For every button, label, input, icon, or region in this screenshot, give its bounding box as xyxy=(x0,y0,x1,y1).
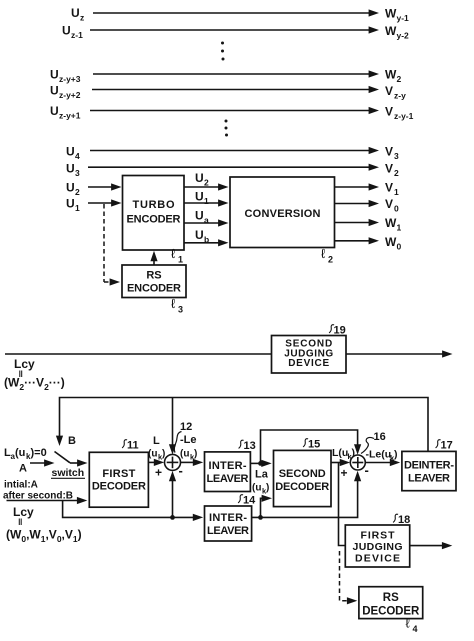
svg-text:19: 19 xyxy=(334,325,346,337)
label switch xyxy=(51,467,85,479)
svg-text:16: 16 xyxy=(374,431,386,443)
adder 16 xyxy=(350,455,365,470)
svg-text:RS: RS xyxy=(383,592,399,604)
label W1 xyxy=(385,216,402,233)
label 16 with leader xyxy=(361,431,386,454)
label W2 xyxy=(385,68,402,85)
svg-text:2: 2 xyxy=(204,178,209,188)
svg-text:+: + xyxy=(341,466,348,480)
svg-text:1: 1 xyxy=(178,255,183,265)
dashed wire U1 tap to RS encoder xyxy=(104,204,113,282)
interleaver block 13 xyxy=(205,452,251,492)
wire Uz to Wy-1 xyxy=(93,12,371,14)
label Uz-y+2 xyxy=(50,84,81,101)
wire RS encoder to turbo encoder xyxy=(150,251,157,265)
first judging device block 18 xyxy=(345,525,409,567)
svg-text:Lcy: Lcy xyxy=(14,357,35,371)
label l3 xyxy=(171,296,183,315)
wire turbo out Ub xyxy=(184,242,222,244)
svg-text:U: U xyxy=(66,145,75,159)
label Vz-y xyxy=(385,84,406,101)
svg-text:(u: (u xyxy=(15,447,25,459)
svg-text:-: - xyxy=(179,463,183,478)
wire U1 into turbo encoder xyxy=(88,202,114,204)
wire conversion out W1 xyxy=(335,222,372,224)
svg-text:ENCODER: ENCODER xyxy=(127,214,181,226)
feedback wire deinterleaver to B and adder 12 xyxy=(60,398,429,452)
svg-text:W: W xyxy=(385,68,397,82)
ellipsis dots upper xyxy=(221,42,228,137)
svg-text:2: 2 xyxy=(75,187,80,197)
wire first decoder to adder 12 xyxy=(148,461,156,463)
label U1 mid xyxy=(195,190,209,207)
svg-text:U: U xyxy=(66,162,75,176)
label 18 xyxy=(393,514,410,526)
svg-text:DEINTER-: DEINTER- xyxy=(404,460,454,472)
first decoder block 11 xyxy=(89,452,148,507)
label U4 xyxy=(66,145,80,162)
svg-text:18: 18 xyxy=(398,514,410,526)
svg-text:1: 1 xyxy=(75,203,80,213)
second judging device block 19 xyxy=(272,336,347,374)
svg-text:U: U xyxy=(195,209,204,223)
svg-text:-: - xyxy=(365,463,369,478)
svg-text:0: 0 xyxy=(397,242,402,252)
wire first judging device out xyxy=(410,545,445,547)
label -Le(uk) right of adder line xyxy=(180,434,197,462)
svg-text:V: V xyxy=(385,105,393,119)
label V1 xyxy=(385,181,399,198)
turbo encoder block 1 xyxy=(123,176,185,251)
second decoder block 15 xyxy=(274,450,332,506)
svg-text:15: 15 xyxy=(308,439,320,451)
svg-text:L(u: L(u xyxy=(332,447,348,459)
wire switch to first decoder xyxy=(70,462,80,464)
svg-text:13: 13 xyxy=(244,440,256,452)
svg-text:(u: (u xyxy=(252,483,261,494)
wire L(uk) tap down to first judging device xyxy=(339,463,346,546)
svg-text:V: V xyxy=(385,162,393,176)
svg-text:INTER-: INTER- xyxy=(209,512,247,524)
label L(uk) before adder 16 xyxy=(332,447,355,461)
svg-text:(u: (u xyxy=(148,449,157,460)
svg-text:11: 11 xyxy=(127,440,139,452)
svg-text:17: 17 xyxy=(441,440,453,452)
svg-text:z-y+1: z-y+1 xyxy=(59,111,81,121)
svg-text:(u: (u xyxy=(180,449,189,460)
svg-text:B: B xyxy=(68,435,76,447)
label V2 xyxy=(385,162,399,179)
svg-text:): ) xyxy=(266,483,269,494)
wire Uz-y+1 to Vz-y-1 xyxy=(90,110,371,112)
svg-text:FIRST: FIRST xyxy=(102,468,135,480)
svg-text:LEAVER: LEAVER xyxy=(207,525,249,537)
svg-text:intial:A: intial:A xyxy=(4,480,38,491)
wire Lcy branch down and right to interleaver 14 xyxy=(63,501,196,518)
label Ua mid xyxy=(195,209,209,226)
adder 12 xyxy=(165,454,181,470)
svg-text:DECODER: DECODER xyxy=(92,481,146,493)
svg-text:1: 1 xyxy=(204,196,209,206)
label Ub mid xyxy=(195,228,209,245)
label -Le(uk) after adder 16 xyxy=(366,449,398,463)
svg-text:y-1: y-1 xyxy=(397,13,410,23)
conversion block 2 xyxy=(230,177,335,248)
label Wy-1 xyxy=(385,7,409,24)
svg-text:W: W xyxy=(385,216,397,230)
svg-text:12: 12 xyxy=(180,421,192,433)
wire second decoder to adder 16 xyxy=(331,462,343,464)
deinterleaver block 17 xyxy=(402,451,456,490)
label Uz xyxy=(71,6,84,23)
svg-text:Lcy: Lcy xyxy=(13,505,34,519)
svg-text:-Le: -Le xyxy=(180,434,197,446)
svg-text:JUDGING: JUDGING xyxy=(353,541,403,553)
svg-text:z-y: z-y xyxy=(394,91,406,101)
svg-text:ENCODER: ENCODER xyxy=(127,283,181,295)
wire junction up over to adder 16 top xyxy=(261,430,358,463)
svg-text:V: V xyxy=(385,197,393,211)
label Wy-2 xyxy=(385,24,409,41)
svg-text:TURBO: TURBO xyxy=(133,199,175,211)
svg-text:V: V xyxy=(385,84,393,98)
label 15 xyxy=(303,439,320,451)
label 19 xyxy=(329,325,346,337)
wire interleaver 14 out to adder 16 bottom xyxy=(252,479,358,518)
svg-text:SECOND: SECOND xyxy=(279,468,326,480)
dashed wire down to RS decoder xyxy=(340,551,349,601)
label Vz-y-1 xyxy=(385,105,414,122)
svg-text:V: V xyxy=(385,145,393,159)
svg-text:0: 0 xyxy=(394,204,399,214)
wire interleaver13 to second decoder with junction xyxy=(250,462,264,464)
wire adder16 to deinterleaver xyxy=(365,462,392,464)
wire Uz-1 to Wy-2 xyxy=(90,29,371,31)
svg-text:2: 2 xyxy=(394,168,399,178)
wire U4 to V3 xyxy=(90,150,371,152)
RS decoder block 4 xyxy=(359,587,423,619)
wire Lcy(W2..V2..) to second judging device and out xyxy=(5,353,445,355)
label V0 xyxy=(385,197,399,214)
svg-text:): ) xyxy=(162,449,165,460)
svg-text:1: 1 xyxy=(394,187,399,197)
label U2 xyxy=(66,181,80,198)
wire conversion out W0 xyxy=(335,240,372,242)
wire Lcy to first decoder xyxy=(7,500,80,502)
svg-text:z-y+3: z-y+3 xyxy=(59,74,81,84)
label 14 xyxy=(238,495,256,507)
svg-text:A: A xyxy=(19,463,27,475)
svg-text:4: 4 xyxy=(413,624,418,634)
node junction after interleaver 14 xyxy=(258,515,263,520)
svg-text:14: 14 xyxy=(243,495,256,507)
label L(uk) left of adder xyxy=(148,435,165,462)
svg-text:U: U xyxy=(50,104,59,118)
svg-text:La: La xyxy=(255,469,269,481)
svg-text:W: W xyxy=(385,7,397,21)
svg-text:FIRST: FIRST xyxy=(361,530,396,542)
svg-text:‖: ‖ xyxy=(18,517,22,527)
svg-text:): ) xyxy=(194,449,197,460)
svg-text:U: U xyxy=(195,228,204,242)
svg-text:DECODER: DECODER xyxy=(275,481,329,493)
wire Uz-y+2 to Vz-y xyxy=(92,89,371,91)
label 13 xyxy=(239,440,256,452)
label l1 xyxy=(171,246,183,265)
switch wire A contact xyxy=(30,462,47,464)
svg-text:U: U xyxy=(62,24,71,38)
wire junction up into second decoder lower input xyxy=(261,498,265,517)
svg-text:switch: switch xyxy=(52,467,85,479)
wire turbo out Ua xyxy=(184,222,222,224)
svg-text:U: U xyxy=(71,6,80,20)
svg-text:a: a xyxy=(204,215,209,225)
wire U3 to V2 xyxy=(88,166,371,168)
svg-text:3: 3 xyxy=(178,305,183,315)
svg-text:)=0: )=0 xyxy=(31,447,47,459)
interleaver block 14 xyxy=(205,506,252,541)
svg-text:z-y-1: z-y-1 xyxy=(394,111,414,121)
label Uz-1 xyxy=(62,24,83,41)
arrowheads right column xyxy=(111,9,379,246)
switch blade xyxy=(55,452,71,463)
wire Uz-y+3 to W2 xyxy=(93,73,371,75)
RS encoder block 3 xyxy=(122,265,186,298)
svg-text:CONVERSION: CONVERSION xyxy=(245,208,321,220)
label l2 xyxy=(321,246,333,265)
node junction before second decoder xyxy=(258,461,263,466)
svg-text:U: U xyxy=(66,181,75,195)
svg-text:L: L xyxy=(153,435,160,447)
wire adder12 to interleaver 13 xyxy=(181,461,196,463)
svg-text:z: z xyxy=(80,13,84,23)
label 17 xyxy=(436,440,453,452)
label Lcy top xyxy=(14,357,35,379)
label 12 with leader xyxy=(174,421,192,453)
label V3 xyxy=(385,145,399,162)
svg-text:U: U xyxy=(195,171,204,185)
svg-text:INTER-: INTER- xyxy=(209,460,247,472)
label U3 xyxy=(66,162,80,179)
label Uz-y+3 xyxy=(50,68,81,85)
svg-text:U: U xyxy=(195,190,204,204)
svg-text:U: U xyxy=(66,197,75,211)
wire turbo out U1 xyxy=(184,202,222,204)
svg-text:1: 1 xyxy=(397,223,402,233)
wire U2 into turbo encoder xyxy=(88,186,114,188)
svg-text:-Le(u: -Le(u xyxy=(366,449,392,461)
svg-text:4: 4 xyxy=(75,151,80,161)
label l4 xyxy=(406,616,418,635)
svg-text:DEVICE: DEVICE xyxy=(288,358,329,369)
svg-text:b: b xyxy=(204,235,209,245)
wire turbo out U2 xyxy=(184,186,222,188)
svg-text:+: + xyxy=(155,466,162,480)
label Uz-y+1 xyxy=(50,104,81,121)
label U1 xyxy=(66,197,80,214)
svg-text:W: W xyxy=(385,24,397,38)
svg-text:W: W xyxy=(385,235,397,249)
svg-text:): ) xyxy=(394,449,398,461)
label La(uk) xyxy=(252,469,269,496)
wire conversion out V0 xyxy=(335,203,372,205)
svg-text:3: 3 xyxy=(75,168,80,178)
label La(uk)=0 xyxy=(4,447,47,461)
label W0 xyxy=(385,235,402,252)
svg-text:RS: RS xyxy=(146,270,161,282)
svg-text:DEVICE: DEVICE xyxy=(355,553,400,565)
svg-text:z-1: z-1 xyxy=(71,30,83,40)
label U2 mid xyxy=(195,171,209,188)
svg-text:z-y+2: z-y+2 xyxy=(59,90,81,100)
svg-text:LEAVER: LEAVER xyxy=(207,473,249,485)
label 11 xyxy=(122,440,139,452)
svg-text:y-2: y-2 xyxy=(397,31,410,41)
svg-text:LEAVER: LEAVER xyxy=(408,473,450,485)
svg-text:3: 3 xyxy=(394,151,399,161)
node junction under adder 12 xyxy=(170,515,175,520)
svg-text:2: 2 xyxy=(397,74,402,84)
svg-text:2: 2 xyxy=(328,255,333,265)
wire conversion out V1 xyxy=(335,186,372,188)
svg-text:U: U xyxy=(50,84,59,98)
svg-text:V: V xyxy=(385,181,393,195)
wire junction up to adder 12 bottom xyxy=(172,479,174,518)
svg-text:U: U xyxy=(50,68,59,82)
label Lcy bottom xyxy=(13,505,34,527)
svg-text:DECODER: DECODER xyxy=(362,606,420,618)
